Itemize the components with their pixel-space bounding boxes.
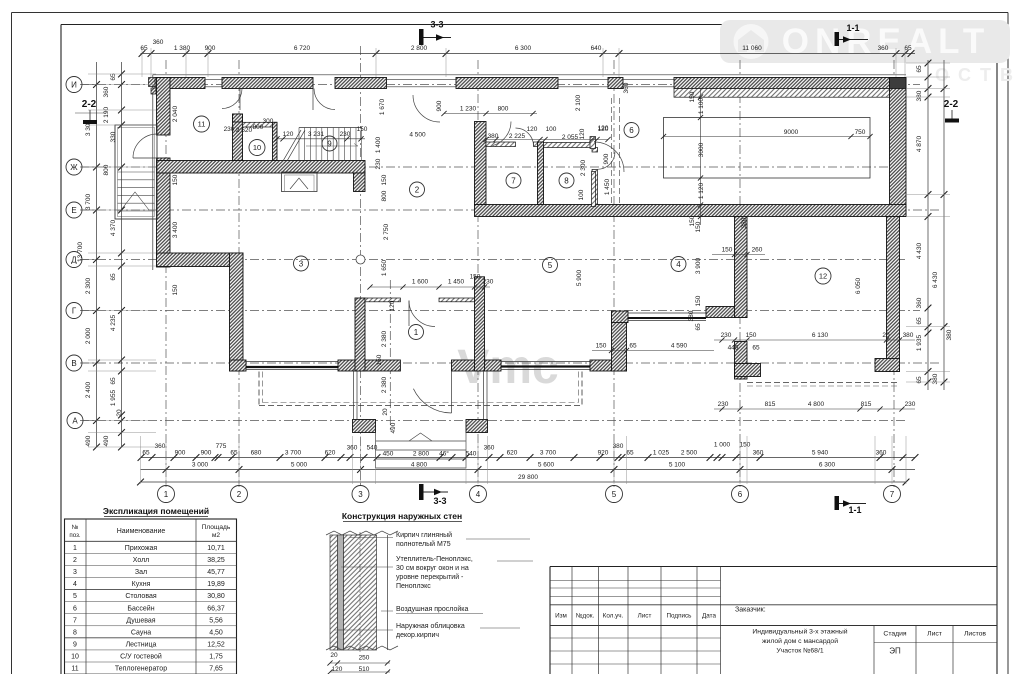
dim under room12 (714, 332, 915, 352)
svg-text:С/У гостевой: С/У гостевой (120, 653, 162, 661)
wall south room3 corner (230, 360, 247, 371)
axis line 2 (238, 60, 240, 487)
svg-text:2 190: 2 190 (103, 106, 110, 123)
room circle 8 (559, 173, 574, 188)
dim pool height (689, 89, 705, 226)
dim room1 top line (367, 274, 493, 290)
svg-text:5: 5 (548, 261, 553, 270)
svg-text:2: 2 (237, 490, 242, 499)
svg-text:380: 380 (688, 310, 695, 321)
terrace steps arrow (409, 433, 432, 441)
svg-text:1,75: 1,75 (209, 654, 223, 661)
axis line 1 (165, 60, 167, 487)
wall divider rooms 11-10 (233, 114, 243, 161)
wall north room1 east part (439, 298, 475, 302)
svg-text:декор.кирпич: декор.кирпич (396, 632, 439, 639)
svg-text:20: 20 (330, 652, 338, 659)
svg-text:2-2: 2-2 (82, 99, 97, 110)
svg-text:Ж: Ж (70, 163, 78, 172)
svg-text:120: 120 (332, 666, 343, 673)
svg-text:Сауна: Сауна (131, 629, 151, 636)
svg-text:Д: Д (71, 255, 77, 264)
svg-text:6 720: 6 720 (294, 45, 311, 52)
wall right pool (890, 78, 907, 217)
svg-text:360: 360 (878, 45, 889, 52)
svg-text:45,77: 45,77 (207, 569, 225, 576)
svg-text:4 800: 4 800 (808, 401, 825, 408)
svg-text:Стадия: Стадия (883, 631, 906, 638)
wall southwest room12 vertical (735, 342, 748, 380)
wall top И segment 4 (456, 78, 558, 89)
svg-text:Площадь: Площадь (202, 524, 231, 531)
svg-text:2-2: 2-2 (944, 99, 959, 110)
svg-text:260: 260 (752, 247, 763, 254)
svg-text:2 800: 2 800 (413, 451, 430, 458)
svg-text:Заказчик:: Заказчик: (735, 607, 766, 614)
svg-text:900: 900 (175, 450, 186, 457)
svg-text:230: 230 (483, 279, 494, 286)
svg-text:Лист: Лист (927, 631, 942, 638)
wall north room7 stub (534, 142, 544, 147)
svg-text:6 050: 6 050 (855, 277, 862, 294)
svg-text:65: 65 (629, 343, 637, 350)
wall construction title (342, 511, 462, 522)
wall section drawing (326, 531, 398, 653)
svg-text:7,65: 7,65 (209, 666, 223, 673)
dimension chain bottom row1 (138, 442, 919, 461)
svg-text:900: 900 (201, 450, 212, 457)
section mark 2-2 right (944, 99, 959, 123)
svg-text:3: 3 (299, 259, 304, 268)
outer face line top (153, 74, 906, 76)
svg-text:Подпись: Подпись (667, 613, 693, 620)
svg-text:1 600: 1 600 (412, 279, 429, 286)
svg-text:230: 230 (375, 158, 382, 169)
dimension chain left outer (77, 62, 100, 450)
svg-text:620: 620 (325, 450, 336, 457)
svg-text:380: 380 (741, 217, 748, 228)
svg-text:815: 815 (765, 401, 776, 408)
section mark 1-1 bottom (835, 496, 867, 515)
svg-text:2 380: 2 380 (381, 376, 388, 393)
grid circle 2 (231, 482, 248, 503)
svg-text:1: 1 (73, 545, 77, 552)
svg-text:Бассейн: Бассейн (127, 604, 154, 612)
room circle 9 (322, 136, 337, 151)
door arc room7 entry (493, 122, 512, 146)
svg-text:20: 20 (116, 409, 123, 417)
svg-text:1 025: 1 025 (653, 450, 670, 457)
svg-text:Столовая: Столовая (125, 593, 157, 600)
window top 4 pool (623, 79, 674, 87)
svg-text:46°: 46° (439, 450, 449, 458)
svg-text:1 450: 1 450 (604, 178, 611, 195)
svg-text:360: 360 (155, 443, 166, 450)
svg-text:66,37: 66,37 (207, 605, 225, 612)
title block frame (550, 567, 997, 675)
svg-text:65: 65 (110, 273, 117, 281)
wall south room5 corner (590, 360, 627, 371)
svg-text:5: 5 (73, 593, 77, 600)
svg-text:100: 100 (578, 189, 585, 200)
svg-text:Дата: Дата (702, 613, 716, 620)
wall south room4 corner west (612, 311, 629, 323)
svg-text:9: 9 (327, 139, 332, 148)
axis line И (80, 84, 920, 86)
svg-text:150: 150 (357, 126, 368, 133)
svg-text:3 000: 3 000 (192, 462, 209, 469)
window top 3 (558, 79, 608, 87)
svg-text:120: 120 (598, 125, 609, 132)
svg-text:150: 150 (596, 343, 607, 350)
svg-text:65: 65 (110, 377, 117, 385)
svg-text:Индивидуальный 3-х этажный: Индивидуальный 3-х этажный (752, 628, 847, 636)
grid circle 4 (470, 486, 487, 503)
svg-text:1 100: 1 100 (698, 97, 705, 114)
entrance steps below Ж wall (282, 172, 318, 192)
grid circle А (67, 413, 97, 429)
svg-text:Зал: Зал (135, 569, 147, 576)
svg-text:800: 800 (253, 124, 264, 131)
svg-text:360: 360 (347, 445, 358, 452)
svg-text:150: 150 (722, 247, 733, 254)
dim label room6 door (598, 125, 609, 132)
rotated dims left wall interior (172, 105, 179, 295)
svg-text:Участок №68/1: Участок №68/1 (776, 648, 823, 655)
svg-text:10: 10 (253, 143, 261, 152)
svg-text:150: 150 (381, 174, 388, 185)
wall southwest room12 horizontal (735, 364, 761, 377)
svg-text:100: 100 (546, 126, 557, 133)
dim room2 top line (409, 126, 610, 142)
rotated dims room4 (688, 217, 748, 330)
wall east room5 (612, 312, 627, 371)
svg-text:150: 150 (695, 221, 702, 232)
svg-text:6: 6 (629, 126, 634, 135)
svg-text:3 700: 3 700 (540, 450, 557, 457)
corner step northwest (149, 78, 157, 95)
svg-text:150: 150 (740, 442, 751, 449)
svg-text:900: 900 (603, 153, 610, 164)
svg-text:И: И (71, 80, 77, 89)
dim hall door (436, 100, 537, 116)
svg-text:920: 920 (598, 450, 609, 457)
terrace pillar southwest (353, 420, 376, 433)
svg-text:7: 7 (73, 617, 77, 624)
watermark Vmc (457, 341, 558, 394)
grid circle В (66, 355, 96, 371)
wall left outer lower (157, 158, 171, 267)
corner block pool northeast (890, 78, 907, 89)
axis line 6 (739, 60, 741, 487)
svg-text:65: 65 (142, 450, 150, 457)
section mark 3-3 top (419, 20, 451, 46)
svg-text:640: 640 (591, 45, 602, 52)
svg-text:1 380: 1 380 (174, 45, 191, 52)
svg-text:1 230: 1 230 (460, 106, 477, 113)
wall stub room8 northeast (592, 148, 598, 153)
wall north room1 west part (365, 298, 400, 302)
svg-text:2 800: 2 800 (411, 45, 428, 52)
axis line 5 (613, 60, 615, 487)
wall detail leaders and labels (334, 531, 533, 639)
svg-text:7: 7 (890, 490, 895, 499)
svg-text:2 620: 2 620 (236, 127, 253, 134)
room circle 7 (506, 173, 521, 188)
svg-text:полнотелый М75: полнотелый М75 (396, 540, 451, 548)
watermark banner ONREALT (720, 20, 1010, 63)
wall east room1 (475, 277, 485, 371)
section mark 3-3 bottom (419, 484, 448, 506)
terrace side wall west (354, 371, 358, 420)
svg-text:2 400: 2 400 (85, 381, 92, 398)
svg-text:490: 490 (390, 422, 397, 433)
svg-text:Экспликация помещений: Экспликация помещений (103, 506, 209, 516)
svg-text:1 450: 1 450 (448, 279, 465, 286)
explication table title (103, 506, 209, 517)
annex stair treads (118, 172, 155, 219)
svg-text:Кирпич глиняный: Кирпич глиняный (396, 531, 452, 539)
wall south B band 2 (452, 360, 502, 371)
svg-text:Кухня: Кухня (132, 581, 151, 588)
svg-text:2: 2 (73, 557, 77, 564)
svg-text:4,50: 4,50 (209, 629, 223, 636)
svg-text:800: 800 (381, 190, 388, 201)
wall Ж band stub (354, 173, 366, 192)
svg-text:1 400: 1 400 (375, 136, 382, 153)
svg-text:2 055: 2 055 (562, 134, 579, 141)
dim room5 east line (592, 343, 714, 354)
svg-text:Душевая: Душевая (126, 617, 155, 624)
svg-text:О С Т В: О С Т В (935, 65, 1015, 85)
svg-text:1: 1 (414, 328, 419, 337)
svg-text:250: 250 (359, 655, 370, 662)
svg-text:230: 230 (224, 126, 235, 133)
svg-text:620: 620 (507, 450, 518, 457)
wall Е band (475, 205, 907, 217)
door arc room1 south (413, 371, 451, 413)
title block texts (555, 607, 986, 656)
svg-text:120: 120 (579, 128, 586, 139)
svg-text:Утеплитель-Пеноплэкс,: Утеплитель-Пеноплэкс, (396, 556, 473, 563)
svg-text:3 231: 3 231 (308, 131, 325, 138)
auxiliary dashed axis terrace (389, 280, 391, 432)
svg-text:380: 380 (932, 373, 939, 384)
axis line Е (80, 209, 940, 211)
svg-text:7: 7 (511, 176, 516, 185)
svg-text:Наружная облицовка: Наружная облицовка (396, 622, 465, 630)
svg-text:20: 20 (882, 332, 890, 339)
svg-text:3: 3 (73, 569, 77, 576)
svg-text:2 100: 2 100 (575, 94, 582, 111)
svg-text:Теплогенератор: Теплогенератор (115, 666, 167, 673)
svg-text:4: 4 (73, 581, 77, 588)
door arc top wall mid (313, 89, 335, 111)
svg-text:1 000: 1 000 (714, 442, 731, 449)
svg-text:11: 11 (71, 666, 78, 673)
room circle 12 (815, 268, 831, 284)
svg-text:Пеноплэкс: Пеноплэкс (396, 583, 431, 590)
svg-text:В: В (71, 359, 76, 368)
svg-text:815: 815 (861, 401, 872, 408)
rotated dims room1 (376, 259, 397, 433)
wall step Д band (157, 253, 244, 267)
svg-text:3-3: 3-3 (430, 20, 443, 30)
room circle 10 (249, 140, 265, 156)
svg-text:1: 1 (164, 490, 169, 499)
svg-text:150: 150 (172, 284, 179, 295)
wall north room7 partition (486, 142, 516, 147)
svg-text:120: 120 (389, 300, 396, 311)
svg-text:уровне перекрытий -: уровне перекрытий - (396, 573, 464, 581)
dim stair9 line (224, 118, 368, 141)
svg-text:5,56: 5,56 (209, 617, 223, 624)
dim room4 divider (712, 247, 765, 258)
svg-text:38,25: 38,25 (207, 557, 225, 564)
door arc room1 north (409, 301, 435, 327)
svg-text:1 670: 1 670 (379, 98, 386, 115)
svg-text:380: 380 (916, 90, 923, 101)
room circle 3 (294, 256, 309, 271)
stair room9 arrow line (306, 144, 358, 147)
svg-text:5 600: 5 600 (538, 462, 555, 469)
window top 2 (387, 79, 457, 87)
wall north room8 partition (544, 143, 596, 148)
svg-text:30 см вокруг окон и на: 30 см вокруг окон и на (396, 565, 469, 572)
terrace12 dashed edge (747, 383, 899, 387)
svg-text:4 500: 4 500 (409, 132, 426, 139)
svg-text:65: 65 (140, 45, 148, 52)
svg-text:1 935: 1 935 (916, 334, 923, 351)
wall top И segment 5 (608, 78, 623, 89)
svg-text:2 225: 2 225 (509, 133, 526, 140)
svg-text:150: 150 (376, 354, 383, 365)
svg-text:380: 380 (946, 329, 953, 340)
wall south B band 1 (338, 360, 400, 371)
svg-text:65: 65 (916, 376, 923, 384)
room circle 11 (194, 116, 210, 132)
dimension chain left inner (103, 62, 125, 450)
svg-text:5 100: 5 100 (669, 462, 686, 469)
grid circle 7 (884, 486, 901, 503)
grid circle Г (66, 303, 96, 319)
dimension chain right inner (916, 60, 931, 390)
svg-text:13 700: 13 700 (77, 242, 84, 262)
svg-text:Лист: Лист (638, 613, 652, 620)
svg-text:1-1: 1-1 (848, 505, 861, 515)
svg-text:3 700: 3 700 (285, 450, 302, 457)
svg-text:6 300: 6 300 (819, 462, 836, 469)
watermark second line (935, 65, 1015, 85)
svg-text:230: 230 (721, 332, 732, 339)
extension lines left (88, 74, 156, 447)
svg-text:150: 150 (746, 332, 757, 339)
axis line Ж (80, 166, 906, 168)
svg-text:330: 330 (110, 131, 117, 142)
svg-text:540: 540 (466, 451, 477, 458)
axis line А (80, 420, 906, 422)
svg-text:1 120: 1 120 (698, 182, 705, 199)
rotated dims col3 stair (375, 98, 390, 240)
grid circle Е (66, 202, 96, 218)
grid circle И (66, 77, 96, 93)
door arc room8 (598, 152, 616, 170)
svg-text:Листов: Листов (964, 631, 986, 638)
svg-text:№док.: №док. (576, 613, 595, 620)
wall Ж band (157, 161, 366, 174)
svg-text:2: 2 (415, 185, 420, 194)
window south room3 (246, 362, 338, 370)
svg-text:Г: Г (72, 306, 77, 315)
wall south room4 corner east (706, 307, 747, 318)
terrace pillar southeast (466, 420, 488, 433)
dimension chain bottom total (137, 474, 909, 485)
dimension chain right outer (932, 60, 953, 390)
svg-text:4 870: 4 870 (916, 135, 923, 152)
svg-text:11 060: 11 060 (742, 45, 762, 52)
section mark 2-2 left (75, 99, 106, 124)
svg-text:Холл: Холл (133, 557, 150, 564)
lintel line room4 window (628, 317, 706, 319)
svg-text:120: 120 (527, 126, 538, 133)
svg-text:А: А (72, 416, 78, 425)
wall piece room6 door jamb (590, 137, 596, 149)
svg-text:2 380: 2 380 (381, 330, 388, 347)
svg-text:150: 150 (695, 295, 702, 306)
svg-text:65: 65 (904, 45, 912, 52)
wall west room1 (355, 298, 365, 371)
wall west room3 (230, 253, 244, 371)
wall stub room12 southeast (875, 359, 900, 372)
svg-text:4 590: 4 590 (671, 343, 688, 350)
svg-text:№: № (72, 524, 79, 531)
axis line Д (80, 259, 906, 261)
svg-text:360: 360 (153, 39, 164, 46)
svg-text:680: 680 (251, 450, 262, 457)
grid circle 3 (352, 486, 369, 503)
svg-text:230: 230 (718, 401, 729, 408)
svg-text:1 955: 1 955 (110, 389, 117, 406)
axis line 7 (893, 60, 895, 487)
explication table (65, 519, 237, 674)
window south room4 (628, 313, 706, 321)
svg-text:1 650: 1 650 (381, 259, 388, 276)
svg-text:3 400: 3 400 (172, 221, 179, 238)
svg-text:20: 20 (382, 408, 389, 416)
svg-text:380: 380 (613, 443, 624, 450)
svg-text:5 940: 5 940 (812, 450, 829, 457)
svg-text:Наименование: Наименование (117, 528, 166, 535)
svg-text:2 300: 2 300 (85, 277, 92, 294)
wall partition room6 lower (592, 172, 596, 207)
terrace side wall east (484, 371, 488, 420)
svg-text:м2: м2 (212, 532, 221, 539)
stair room9 break line (283, 130, 305, 161)
svg-text:9: 9 (73, 641, 77, 648)
svg-text:445: 445 (728, 345, 739, 352)
extension lines bottom (141, 436, 907, 484)
svg-text:3000: 3000 (698, 142, 705, 157)
svg-text:10: 10 (71, 654, 79, 661)
svg-text:29 800: 29 800 (518, 474, 538, 481)
svg-text:4 235: 4 235 (110, 314, 117, 331)
wall top И segment 1 (155, 78, 205, 89)
wall detail dims (327, 652, 390, 675)
svg-text:360: 360 (876, 450, 887, 457)
svg-text:775: 775 (216, 443, 227, 450)
section mark 1-1 top (835, 23, 869, 46)
canopy dashed outline south (259, 372, 582, 406)
